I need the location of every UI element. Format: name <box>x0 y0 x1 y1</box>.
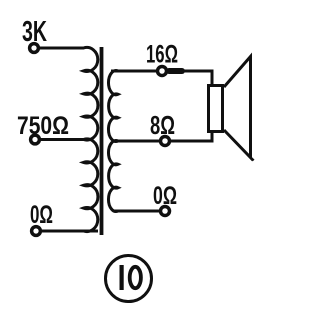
ink blotch on 16-ohm wire <box>169 68 182 74</box>
svg-text:16Ω: 16Ω <box>146 41 178 69</box>
terminal 0-ohm right <box>161 207 170 216</box>
svg-text:3K: 3K <box>22 16 47 48</box>
speaker LS1 cone <box>224 57 251 158</box>
primary winding L1 <box>38 47 98 231</box>
label figure number 10 digit 1 <box>120 265 124 290</box>
svg-text:750Ω: 750Ω <box>17 112 69 140</box>
svg-text:0Ω: 0Ω <box>30 201 53 229</box>
transformer core <box>100 47 104 235</box>
terminal 3K <box>30 44 39 53</box>
figure number circle <box>106 256 152 302</box>
wire 8-ohm line to speaker <box>118 133 212 141</box>
speaker LS1 driver <box>209 86 223 132</box>
wire 750-ohm tap <box>40 138 84 141</box>
speaker cone corner tick <box>251 158 254 161</box>
svg-text:0Ω: 0Ω <box>153 182 177 210</box>
wire 16-ohm line to speaker <box>111 71 212 84</box>
svg-text:8Ω: 8Ω <box>150 110 175 140</box>
terminal 8-ohm <box>161 137 170 146</box>
terminal 0-ohm left <box>32 227 41 236</box>
terminal 750-ohm <box>31 135 40 144</box>
secondary winding L2 <box>108 71 160 212</box>
label figure number 10 digit 0 <box>130 267 141 288</box>
terminal 16-ohm <box>158 67 167 76</box>
